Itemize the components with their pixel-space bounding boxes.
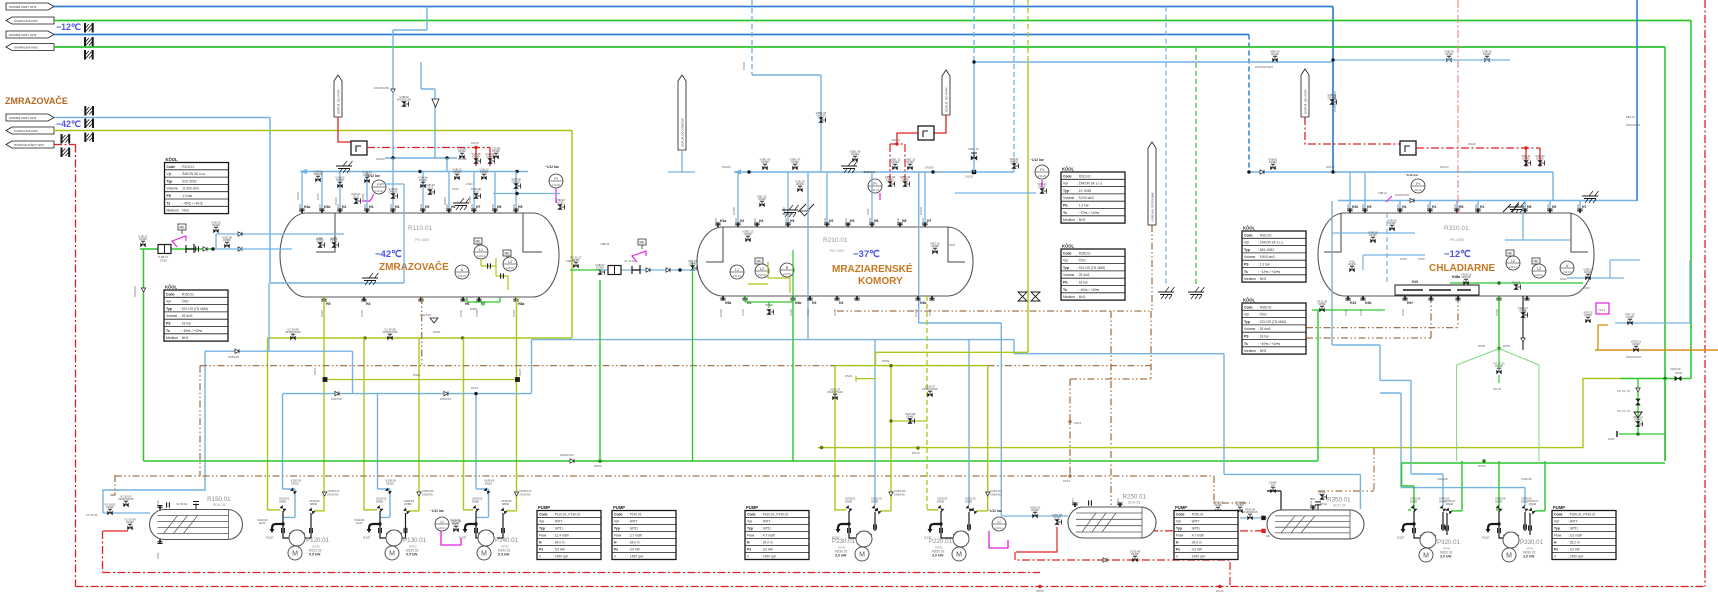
svg-text:: 18 bar: : 18 bar (180, 322, 192, 326)
svg-text:PI: PI (873, 182, 876, 186)
svg-text:DN25: DN25 (106, 505, 114, 509)
svg-text:DN50: DN50 (1396, 203, 1400, 210)
junction green right a (1663, 377, 1666, 380)
svg-text:DN200: DN200 (753, 217, 757, 226)
junction blue suction (474, 392, 477, 395)
nozzle R310 top 1 (1361, 203, 1371, 213)
svg-text:DN80: DN80 (1478, 344, 1486, 348)
wire green discharge elbow 320 (1452, 510, 1463, 512)
junction green stack (1636, 432, 1639, 435)
svg-text:DN40: DN40 (419, 178, 427, 182)
wire brown flag drop (1151, 225, 1153, 311)
svg-text:: −12℃ / +40℃: : −12℃ / +40℃ (1258, 270, 1281, 274)
svg-text:Typ: Typ (614, 527, 620, 531)
svg-text:DN50: DN50 (318, 203, 322, 210)
flag MOKRÉ PARY NH3 −42 suction (6, 114, 54, 121)
instrument L2 R110 (503, 257, 517, 271)
insulation break 6 (85, 133, 93, 143)
svg-text:Ps: Ps (747, 548, 751, 552)
svg-text:Volume: Volume (167, 187, 178, 191)
svg-text:G1/2: G1/2 (427, 186, 434, 190)
wire nozzle riser R110 2 (339, 172, 341, 214)
svg-text:DN15: DN15 (485, 482, 493, 486)
svg-text:DN50: DN50 (363, 173, 371, 177)
svg-text:DN15: DN15 (1071, 497, 1075, 504)
junction suction 130 (378, 522, 381, 525)
svg-text:−1/12 bar: −1/12 bar (1405, 173, 1419, 177)
svg-text:140.1x: 140.1x (438, 526, 446, 530)
wire green inlet elbow 330 (1496, 509, 1499, 511)
junction upper header b (1331, 170, 1334, 173)
reducer discharge 140 (514, 492, 518, 496)
svg-text:: ŽAKON SK s.r.o.: : ŽAKON SK s.r.o. (1077, 181, 1103, 186)
wire blue right entry (1636, 0, 1638, 201)
valve V350.05 (1242, 507, 1258, 520)
wire interior feed R110 (216, 233, 344, 235)
svg-text:DN200: DN200 (296, 191, 300, 200)
valve V130.05 suction (385, 487, 392, 494)
wire green inlet elbow 320 (1408, 509, 1411, 511)
wire green drop P330 (1498, 461, 1500, 511)
svg-text:DN200: DN200 (389, 203, 393, 212)
junction interior green (1497, 281, 1500, 284)
nozzle R110 top H2 (336, 203, 346, 213)
reducer DN80/100 trunk (570, 459, 574, 463)
instrument L2 R310 a (1506, 256, 1520, 270)
valve V230.07 stack (828, 387, 843, 400)
flag MOKRÉ PARY NH3 line 1 (6, 3, 54, 10)
svg-text:Medium: Medium (166, 336, 178, 340)
svg-text:: GP51: : GP51 (628, 527, 638, 531)
svg-text:DN200: DN200 (443, 196, 447, 205)
svg-text:ME: ME (475, 240, 481, 244)
svg-text:DN50: DN50 (310, 502, 318, 506)
svg-text:: −45℃ / +40℃: : −45℃ / +40℃ (181, 201, 204, 205)
svg-text:DN15: DN15 (512, 309, 516, 316)
wire dashed drop module2 (751, 0, 753, 75)
svg-text:210.15: 210.15 (783, 272, 791, 276)
svg-text:DN40: DN40 (596, 266, 604, 270)
pump P130.01 (385, 530, 427, 560)
signal magenta mid cluster (632, 251, 646, 262)
svg-text:Výr: Výr (1554, 520, 1560, 524)
table vessel R110.01 data (165, 157, 229, 214)
svg-text:Code: Code (539, 513, 548, 517)
svg-text:: 5,5 kW: : 5,5 kW (553, 548, 565, 552)
table exchanger R350.01 data (1242, 298, 1306, 355)
wire olive pump drop 4 (463, 338, 465, 511)
valve V140.01 inlet (472, 505, 479, 512)
svg-text:ME: ME (639, 241, 645, 245)
svg-text:P330.01: P330.01 (1520, 539, 1544, 546)
svg-text:DN50: DN50 (1608, 437, 1615, 441)
wire orange liquid (1595, 325, 1718, 350)
junction olive mod2 (889, 419, 892, 422)
svg-text:G1/2": G1/2" (259, 521, 266, 525)
svg-text:DN40: DN40 (1446, 502, 1454, 506)
svg-text:DN50: DN50 (882, 359, 890, 363)
svg-text:DN25: DN25 (413, 373, 421, 377)
fitting R150 top (193, 502, 199, 510)
nozzle R110 top H3 (363, 203, 373, 213)
wire blue y323 (1615, 322, 1690, 324)
svg-text:DN15: DN15 (292, 482, 300, 486)
svg-text:: ŽAKON SK s.r.o.: : ŽAKON SK s.r.o. (181, 171, 207, 176)
svg-text:DN200: DN200 (1576, 203, 1580, 212)
valve interior H1d (330, 236, 338, 248)
reducer DN30/25 (444, 391, 448, 395)
valve V1B.15 (425, 183, 435, 195)
valve C110a (458, 146, 466, 159)
valve V130.03 discharge (403, 507, 410, 514)
flag DOPLN DO ATAP module1 (334, 75, 342, 117)
wire nozzle riser R310 4 (1524, 201, 1526, 214)
svg-text:310.14: 310.14 (1509, 265, 1517, 269)
svg-text:DN25: DN25 (1400, 257, 1407, 261)
svg-text:5.5 kW: 5.5 kW (498, 553, 510, 557)
svg-text:V320.08: V320.08 (1437, 477, 1448, 481)
valve R350 top (1269, 480, 1277, 493)
wire gauge line module1 (493, 193, 560, 195)
wire L4 drop at x1665 (1664, 47, 1666, 461)
svg-text:H4+: H4+ (1407, 301, 1413, 305)
wire blue continuation feed (213, 248, 292, 250)
svg-text:PS: PS (1244, 335, 1249, 339)
svg-text:: SCH 25 (TN 4545): : SCH 25 (TN 4545) (1258, 320, 1286, 324)
valve on riser 821 (816, 111, 827, 123)
drain elbow G1/2 330 (1488, 524, 1499, 530)
svg-text:V2 10.24: V2 10.24 (624, 259, 636, 263)
table vessel R310.01 data (1242, 226, 1306, 283)
svg-text:: 2,6 m3/h: : 2,6 m3/h (1568, 534, 1582, 538)
wire nozzle riser R310 0 (1399, 201, 1401, 214)
valve V1B.21 (138, 234, 148, 247)
fitting R350 shell top (1315, 502, 1321, 510)
instrument PI R110 header (372, 180, 386, 194)
wire riser subheader b (446, 158, 448, 172)
wire brown module3 spur (1306, 296, 1458, 328)
svg-text:: SCH 25 (TN 4545): : SCH 25 (TN 4545) (180, 307, 208, 311)
svg-text:: 34,0 m: : 34,0 m (553, 541, 565, 545)
wire interior PI riser R110 (380, 184, 404, 283)
wire red module1 flag drop (338, 117, 351, 142)
svg-text:: 25 dm3: : 25 dm3 (180, 314, 193, 318)
svg-text:310.15: 310.15 (1563, 270, 1571, 274)
svg-text:DN 25: DN 25 (1493, 387, 1501, 391)
reducer DN15/30 (335, 391, 339, 395)
union suction 140 (475, 528, 478, 533)
valve V330.07 discharge (1528, 507, 1535, 514)
controller box module2 (918, 126, 934, 140)
dip tube right R210 (948, 227, 965, 262)
svg-text:H1: H1 (1480, 205, 1484, 209)
svg-text:Typ: Typ (1554, 527, 1560, 531)
svg-text:M: M (1506, 553, 1512, 560)
svg-text:SCH 25: SCH 25 (213, 503, 226, 507)
svg-text:G1/2": G1/2" (356, 521, 363, 525)
wire L1 blue wet-vapour −12 header (54, 6, 1333, 8)
wire olive Z link module2 (835, 352, 1028, 365)
wire green left drop R310 (1317, 310, 1319, 461)
valve riser 393 (388, 187, 398, 199)
wire vapour header R110 (300, 171, 528, 173)
nozzle R210 top 1 (734, 217, 744, 227)
svg-text:Volume: Volume (166, 314, 177, 318)
svg-text:H8: H8 (902, 219, 906, 223)
svg-text:Typ: Typ (1063, 266, 1069, 270)
nozzle R210 bottom 7 (928, 296, 935, 316)
svg-text:DN40: DN40 (212, 223, 220, 227)
svg-text:DN15: DN15 (1318, 491, 1326, 495)
svg-text:DN100: DN100 (844, 217, 848, 226)
svg-text:DN40: DN40 (1675, 371, 1683, 375)
wire subheader y158 (385, 157, 457, 159)
wire red right frame vertical (1704, 0, 1706, 587)
svg-text:DN50: DN50 (336, 178, 344, 182)
svg-text:DN50/NE: DN50/NE (520, 492, 531, 496)
exchanger R150.01 (150, 496, 243, 540)
instrument PI R110 right (549, 174, 563, 188)
svg-text:H5: H5 (425, 205, 429, 209)
svg-text:DN40: DN40 (1271, 52, 1279, 56)
drain hatch header R210 (841, 161, 858, 173)
wire vapour header R210 (734, 171, 1014, 173)
svg-text:DN50: DN50 (1584, 313, 1592, 317)
wire nozzle riser R310 2 (1456, 201, 1458, 214)
svg-text:: P250.01: : P250.01 (1190, 513, 1204, 517)
instrument LI P220 (992, 517, 1006, 531)
svg-text:DN80/100: DN80/100 (560, 453, 574, 457)
instrument PI R310 (1411, 179, 1425, 193)
wire olive discharge elbow 130 (409, 510, 420, 512)
wire blue step down module2 (1013, 340, 1015, 354)
wire green mid cluster (570, 269, 600, 271)
valve red V110a (471, 152, 481, 164)
svg-text:DN200: DN200 (925, 166, 934, 170)
svg-text:n: n (1554, 555, 1556, 559)
reducer DN200/250 R310 (1410, 198, 1414, 202)
valve V250.01 (1030, 505, 1041, 518)
svg-text:G1/2": G1/2" (459, 536, 467, 540)
svg-text:DN50/NE: DN50/NE (422, 492, 433, 496)
wire olive discharge elbow 140 (506, 510, 517, 512)
svg-text:−12℃: −12℃ (56, 22, 81, 32)
svg-text:: 35,2 m: : 35,2 m (1568, 541, 1580, 545)
svg-text:: NH3: : NH3 (181, 209, 189, 213)
junction manifold a (363, 336, 366, 339)
svg-text:DN100: DN100 (734, 217, 738, 226)
valve V2B1.32 header (971, 153, 977, 161)
wire green riser to trunk (143, 249, 145, 461)
valve V1B.27 (595, 263, 605, 275)
svg-text:DN25/15: DN25/15 (782, 212, 793, 216)
junction header R210 b (931, 170, 934, 173)
svg-text:H3: H3 (369, 205, 373, 209)
wire nozzle riser R110 9 (515, 172, 517, 214)
svg-text:Výr: Výr (167, 172, 173, 176)
svg-text:DN50: DN50 (1546, 203, 1550, 210)
wire brown vessel2 equalize (837, 310, 1151, 312)
valve header3 left (1268, 157, 1278, 170)
valve vessel2 left b (707, 259, 718, 271)
junction square cross a (323, 377, 328, 382)
flag KVAPALINA NH3 line 4 (6, 44, 54, 51)
cap DN50 stub (1616, 431, 1618, 437)
reducer discharge 120 (322, 492, 326, 496)
svg-text:: 3,0 kW: : 3,0 kW (1190, 548, 1202, 552)
svg-text:DN40: DN40 (1632, 342, 1640, 346)
svg-text:P220.01: P220.01 (929, 538, 953, 545)
svg-text:H6: H6 (451, 205, 455, 209)
table pumps P320 P330 (1552, 505, 1616, 560)
svg-text:DN15: DN15 (1116, 497, 1120, 504)
svg-text:DN40: DN40 (851, 152, 859, 156)
junction olive trunk left (820, 446, 823, 449)
signal magenta PI R210 stem (1041, 180, 1043, 188)
svg-text:DN125: DN125 (1512, 281, 1521, 285)
nozzle R110 top H6 (445, 203, 455, 213)
valve V1B.2B (222, 235, 232, 248)
svg-text:5.5 kW: 5.5 kW (406, 553, 418, 557)
wire olive inlet elbow 120 (268, 509, 280, 511)
svg-text:R210.01: R210.01 (823, 237, 848, 244)
wire pink equalize vertical (1457, 0, 1459, 213)
hatch left of R210 (782, 205, 799, 217)
svg-text:H4: H4 (1402, 205, 1406, 209)
svg-text:H5: H5 (790, 219, 794, 223)
svg-text:DN200: DN200 (722, 165, 731, 169)
svg-text:DN40: DN40 (866, 208, 870, 215)
svg-text:PS: PS (166, 322, 171, 326)
svg-text:DOPLŇ. DO ATAP.: DOPLŇ. DO ATAP. (944, 87, 949, 112)
svg-text:KÔOL: KÔOL (166, 157, 179, 162)
nozzle R150 left top (156, 500, 163, 510)
insulation break 7 (62, 134, 70, 144)
svg-text:Medium: Medium (1244, 349, 1256, 353)
svg-text:: 18 bar: : 18 bar (1258, 335, 1270, 339)
svg-text:Ps: Ps (1176, 548, 1180, 552)
flag DOPLN DO ATAP module3 (1301, 69, 1309, 117)
junction olive trunk (916, 446, 919, 449)
svg-text:DN100: DN100 (1326, 165, 1335, 169)
table pump P250 (1174, 505, 1238, 560)
svg-text:LI: LI (998, 520, 1001, 524)
svg-text:DN15: DN15 (556, 201, 564, 205)
svg-text:HORÚCE PÁRY NH3: HORÚCE PÁRY NH3 (14, 143, 44, 147)
wire green bottom link R110 (467, 297, 500, 306)
valve red V310.23 (1535, 154, 1545, 166)
svg-text:: 18 bar: : 18 bar (1077, 281, 1089, 285)
controller box module3 (1400, 141, 1416, 155)
dip tube left R110 (316, 213, 335, 252)
svg-text:DN200: DN200 (732, 206, 736, 215)
svg-text:H4: H4 (839, 301, 843, 305)
valve V230.08 red drain (1130, 549, 1141, 562)
svg-text:DN40: DN40 (1369, 233, 1377, 237)
instrument L1 R210 (730, 265, 744, 279)
svg-text:: 845−5052: : 845−5052 (1258, 248, 1274, 252)
drain hatch header R110 (336, 161, 353, 173)
svg-text:KÔOL: KÔOL (1062, 167, 1075, 172)
nozzle R250 top a (1071, 497, 1078, 507)
wire red module3 flag drop (1305, 117, 1400, 144)
flag HORÚCE PÁRY NH3 red (6, 141, 54, 148)
junction red bottom a (1038, 585, 1041, 588)
union discharge 330 (1529, 525, 1532, 530)
flag MOKRÉ PARY NH3 line 3 (6, 31, 54, 38)
svg-text:DN40: DN40 (419, 203, 423, 210)
valve V220.07 stack (923, 384, 938, 397)
svg-text:DN40: DN40 (1495, 500, 1503, 504)
svg-text:DN25: DN25 (316, 239, 324, 243)
valve red V110b (485, 152, 495, 164)
svg-text:M: M (956, 552, 962, 559)
wire blue suction m3 b (1380, 380, 1443, 506)
svg-text:PUMP: PUMP (1553, 505, 1565, 510)
valve mid inlet (570, 255, 582, 268)
valve V220.10 blue (965, 505, 972, 512)
svg-text:Code: Code (1063, 174, 1072, 178)
junction upper header a (1247, 170, 1250, 173)
wire olive supply module2 (1027, 62, 1029, 352)
wire L4 green liquid header 2 (54, 46, 1665, 48)
table exchanger R150.01 data (164, 285, 228, 342)
valve bottom R210 (765, 303, 773, 315)
drain elbow G1/2 120 (272, 524, 283, 530)
wire blue drop P140 (475, 394, 477, 489)
svg-text:220.1x: 220.1x (995, 526, 1003, 530)
svg-text:−1/12 bar: −1/12 bar (862, 170, 876, 174)
wire L1 drop at x1333 (1332, 7, 1334, 173)
junction red module2 (895, 142, 898, 145)
svg-text:DN40: DN40 (891, 160, 899, 164)
pump P330.01 (1502, 532, 1544, 562)
svg-text:DN300: DN300 (376, 157, 385, 161)
wire nozzle riser R310 5 (1549, 201, 1551, 214)
svg-text:R250.01: R250.01 (1123, 494, 1147, 501)
valve V250.03 (1213, 500, 1224, 513)
union discharge 120 (310, 528, 313, 533)
wire blue suction header1 (205, 350, 353, 352)
svg-text:: 920−5052: : 920−5052 (181, 179, 197, 183)
svg-text:KB1.3x: KB1.3x (1626, 115, 1636, 119)
svg-text:3,0 kW: 3,0 kW (1440, 555, 1452, 559)
svg-text:ME: ME (179, 226, 185, 230)
reducer mid a (646, 268, 650, 272)
valve V330.05 inlet (1495, 505, 1502, 512)
svg-text:DN50: DN50 (459, 309, 463, 316)
wire brown drop to R250 (1110, 311, 1112, 505)
svg-text:5.5 kW: 5.5 kW (309, 553, 321, 557)
insulation break 3 (85, 50, 93, 60)
svg-text:DN25: DN25 (330, 239, 338, 243)
wire green safety stack (1637, 379, 1639, 433)
svg-text:3,0 kW: 3,0 kW (835, 554, 847, 558)
svg-text:: WITT: : WITT (628, 520, 638, 524)
union internal b (501, 273, 504, 278)
svg-text:DN40: DN40 (492, 149, 500, 153)
svg-text:KVAPALINA NH3: KVAPALINA NH3 (14, 19, 38, 23)
valve riser 516 (511, 177, 521, 189)
wire blue through R210 a (807, 172, 809, 340)
wire brown R150 inlet (108, 475, 115, 495)
wire black discharge spool 320 (1446, 513, 1448, 535)
svg-text:DN80: DN80 (470, 307, 478, 311)
svg-text:Flow: Flow (747, 534, 755, 538)
wire nozzle riser R210 4 (924, 172, 926, 227)
svg-text:Ts: Ts (167, 201, 171, 205)
junction brown a (1068, 420, 1071, 423)
